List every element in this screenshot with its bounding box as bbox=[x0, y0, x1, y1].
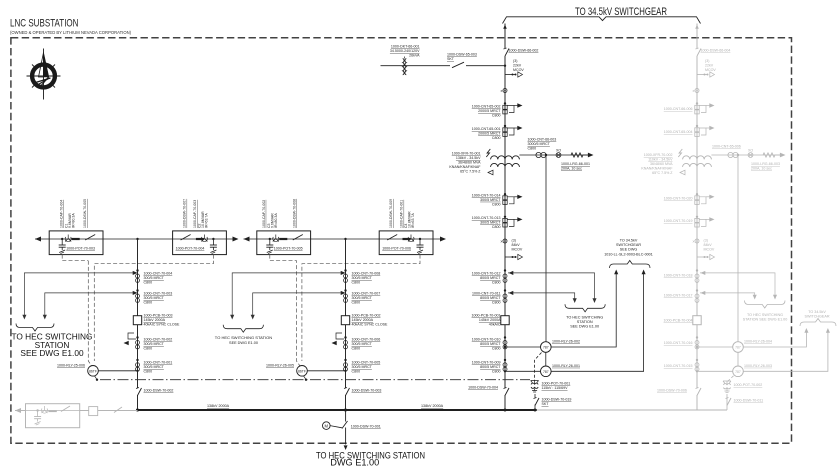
svg-text:x: x bbox=[693, 88, 695, 93]
svg-text:MCOV: MCOV bbox=[704, 248, 715, 252]
svg-text:115kV : 115/69V: 115kV : 115/69V bbox=[542, 386, 569, 390]
svg-text:1000-RLY-26-004: 1000-RLY-26-004 bbox=[744, 340, 772, 344]
capacitor bank 1000-POT-70-003 bbox=[49, 231, 103, 255]
svg-text:300/5 MRCT: 300/5 MRCT bbox=[480, 221, 501, 225]
svg-text:1000-CNT-70-011: 1000-CNT-70-011 bbox=[472, 292, 501, 296]
svg-text:300/5 MRCT: 300/5 MRCT bbox=[144, 342, 165, 346]
svg-text:1000-POT-70-006: 1000-POT-70-006 bbox=[382, 247, 411, 251]
svg-text:200A, 10 sec: 200A, 10 sec bbox=[561, 167, 582, 171]
svg-text:1000-PCB-70-001: 1000-PCB-70-001 bbox=[472, 314, 501, 318]
relay 1000-RLY-26-001 bbox=[505, 370, 541, 372]
svg-text:1000-LRG-66-001: 1000-LRG-66-001 bbox=[561, 162, 590, 166]
svg-text:1000-DSW-70-006: 1000-DSW-70-006 bbox=[657, 389, 687, 393]
svg-text:36/48/60 MVA: 36/48/60 MVA bbox=[650, 162, 673, 166]
svg-text:MCOV: MCOV bbox=[512, 248, 523, 252]
svg-text:200A, 10 sec: 200A, 10 sec bbox=[751, 167, 772, 171]
svg-text:C800: C800 bbox=[492, 281, 501, 285]
brace over relay wires bbox=[610, 261, 651, 269]
svg-text:1000-CNT-66-003: 1000-CNT-66-003 bbox=[528, 138, 557, 142]
svg-text:DWG E1.00: DWG E1.00 bbox=[330, 458, 379, 468]
svg-text:C800: C800 bbox=[492, 136, 501, 140]
svg-text:86TF: 86TF bbox=[89, 369, 97, 373]
svg-text:800/5 MRCT: 800/5 MRCT bbox=[480, 296, 501, 300]
svg-text:34.5000-240/120V: 34.5000-240/120V bbox=[390, 49, 420, 53]
svg-text:1000-PCB-70-003: 1000-PCB-70-003 bbox=[144, 314, 173, 318]
wire transformer neutral branch bbox=[519, 154, 590, 156]
PT 1000-POT-70-002 gray bbox=[727, 376, 734, 382]
svg-text:1000-DSW-70-002: 1000-DSW-70-002 bbox=[144, 389, 174, 393]
svg-text:1000-DSW-65-003: 1000-DSW-65-003 bbox=[447, 53, 477, 57]
brace TO HEC SWITCHING STATION bbox=[16, 324, 54, 332]
svg-text:1000-CNT-70-013: 1000-CNT-70-013 bbox=[472, 216, 501, 220]
svg-text:1000-CNT-70-016: 1000-CNT-70-016 bbox=[664, 341, 693, 345]
svg-text:40kAIC SYNC CLOSE: 40kAIC SYNC CLOSE bbox=[352, 323, 389, 327]
svg-text:IR=80.3A: IR=80.3A bbox=[274, 213, 278, 228]
svg-text:787: 787 bbox=[543, 346, 549, 350]
dashed cap control wiring bbox=[94, 255, 213, 361]
svg-text:1000-CNT-70-006: 1000-CNT-70-006 bbox=[352, 338, 381, 342]
svg-text:1000-CNT-70-001: 1000-CNT-70-001 bbox=[144, 361, 173, 365]
svg-text:300/5 MRCT: 300/5 MRCT bbox=[352, 365, 373, 369]
svg-text:1000-CNT-70-010: 1000-CNT-70-010 bbox=[472, 338, 501, 342]
dashed substation fence border bbox=[11, 38, 792, 443]
svg-text:787: 787 bbox=[735, 370, 741, 374]
svg-text:x: x bbox=[693, 239, 695, 244]
dashed cap control wiring bbox=[302, 255, 420, 361]
dashed cap control wiring bbox=[270, 255, 300, 366]
svg-text:1000-DSW-70-003: 1000-DSW-70-003 bbox=[352, 389, 382, 393]
svg-text:1000-CNT-65-001: 1000-CNT-65-001 bbox=[472, 127, 501, 131]
future 138kV feeder riser (gray) bbox=[696, 24, 698, 411]
svg-text:40kAIC: 40kAIC bbox=[489, 323, 501, 327]
brace TO HEC SWITCHING STATION (centre right) bbox=[565, 304, 605, 312]
relay 1000-RLY-26-003 gray bbox=[697, 370, 733, 372]
brace TO HEC SWITCHING STATION gray bbox=[745, 301, 786, 309]
svg-text:1000-CAP-70-002: 1000-CAP-70-002 bbox=[262, 200, 266, 228]
svg-text:787: 787 bbox=[543, 370, 549, 374]
svg-text:x: x bbox=[501, 239, 503, 244]
svg-text:KNAN/KNAF/KNAF: KNAN/KNAF/KNAF bbox=[641, 167, 673, 171]
svg-text:SWITCHGEAR: SWITCHGEAR bbox=[805, 315, 830, 319]
svg-text:SEE DWG E1.00: SEE DWG E1.00 bbox=[570, 325, 599, 329]
svg-text:1000-CAP-70-004: 1000-CAP-70-004 bbox=[59, 200, 63, 228]
svg-text:22kV: 22kV bbox=[705, 64, 714, 68]
svg-text:TO HEC SWITCHING: TO HEC SWITCHING bbox=[747, 313, 783, 317]
svg-text:2000/5 MRCT: 2000/5 MRCT bbox=[478, 132, 501, 136]
svg-text:C800: C800 bbox=[492, 202, 501, 206]
wire relays to 34.5kV switchgear brace bbox=[551, 273, 616, 348]
svg-text:1000-CNT-70-007: 1000-CNT-70-007 bbox=[352, 292, 381, 296]
svg-text:TO HEC SWITCHING: TO HEC SWITCHING bbox=[566, 315, 603, 319]
svg-text:1000-RLY-26-003: 1000-RLY-26-003 bbox=[744, 364, 772, 368]
svg-text:C800: C800 bbox=[352, 370, 361, 374]
svg-text:1000-CNT-70-008: 1000-CNT-70-008 bbox=[352, 272, 381, 276]
bus future section gray bbox=[537, 409, 727, 411]
svg-text:C800: C800 bbox=[352, 347, 361, 351]
relay 1000-RLY-26-002 bbox=[505, 346, 541, 348]
svg-text:300/5 MRCT: 300/5 MRCT bbox=[144, 296, 165, 300]
svg-text:1000-DKT-66-001: 1000-DKT-66-001 bbox=[391, 45, 420, 49]
svg-text:1000-DSW-70-001: 1000-DSW-70-001 bbox=[351, 424, 381, 428]
svg-text:SWITCHGEAR: SWITCHGEAR bbox=[616, 243, 641, 247]
svg-text:1000-CNT-70-019: 1000-CNT-70-019 bbox=[664, 219, 693, 223]
wire station service branch bbox=[381, 65, 451, 67]
wire gray CT secondaries to gray HEC brace bbox=[700, 273, 775, 296]
wire feeder drop at x=137.5 bbox=[137, 239, 139, 410]
svg-text:C800: C800 bbox=[492, 225, 501, 229]
svg-text:KNAN/KNAF/KNAF: KNAN/KNAF/KNAF bbox=[449, 165, 481, 169]
svg-text:LNC SUBSTATION: LNC SUBSTATION bbox=[10, 18, 79, 30]
svg-text:1000-CNT-70-015: 1000-CNT-70-015 bbox=[664, 364, 693, 368]
svg-text:C800: C800 bbox=[144, 370, 153, 374]
svg-text:STATION SEE DWG E1.00: STATION SEE DWG E1.00 bbox=[743, 318, 788, 322]
svg-text:TO HEC SWITCHING STATION: TO HEC SWITCHING STATION bbox=[215, 336, 273, 340]
svg-text:1000-CNT-70-018: 1000-CNT-70-018 bbox=[664, 274, 693, 278]
svg-text:40kAIC SYNC CLOSE: 40kAIC SYNC CLOSE bbox=[144, 323, 181, 327]
svg-text:2000/5 MRCT: 2000/5 MRCT bbox=[478, 109, 501, 113]
svg-text:300/5 MRCT: 300/5 MRCT bbox=[352, 296, 373, 300]
svg-text:1000-DSW-70-009: 1000-DSW-70-009 bbox=[389, 199, 393, 228]
capacitor bank 1000-POT-70-006 bbox=[379, 231, 433, 255]
PT 1000-POT-70-001 bbox=[535, 353, 542, 382]
svg-text:145kV 2000A: 145kV 2000A bbox=[479, 318, 501, 322]
svg-text:1000-CNT-70-003: 1000-CNT-70-003 bbox=[144, 292, 173, 296]
svg-text:86TF: 86TF bbox=[298, 369, 306, 373]
svg-text:MCOV: MCOV bbox=[705, 68, 716, 72]
svg-text:1000-RLY-26-001: 1000-RLY-26-001 bbox=[552, 364, 580, 368]
svg-text:1000-CNT-70-014: 1000-CNT-70-014 bbox=[472, 193, 501, 197]
svg-text:1000-RLY-26-002: 1000-RLY-26-002 bbox=[552, 340, 580, 344]
svg-text:(3): (3) bbox=[705, 59, 709, 63]
svg-text:800/5 MRCT: 800/5 MRCT bbox=[480, 276, 501, 280]
svg-text:3000/5 MRCT: 3000/5 MRCT bbox=[528, 142, 551, 146]
svg-text:800/5 MRCT: 800/5 MRCT bbox=[480, 342, 501, 346]
svg-text:84kV: 84kV bbox=[704, 243, 713, 247]
svg-text:1000-POT-70-001: 1000-POT-70-001 bbox=[542, 382, 571, 386]
svg-text:C800: C800 bbox=[352, 301, 361, 305]
svg-text:C800: C800 bbox=[492, 301, 501, 305]
svg-text:300/5 MRCT: 300/5 MRCT bbox=[144, 365, 165, 369]
svg-text:1000-DSW-66-004: 1000-DSW-66-004 bbox=[701, 49, 731, 53]
svg-text:1000-CNT-70-020: 1000-CNT-70-020 bbox=[664, 197, 693, 201]
svg-text:138kV - 34.5kV: 138kV - 34.5kV bbox=[456, 156, 481, 160]
wire gray relays to 34.5kV switchgear brace bbox=[743, 331, 806, 347]
svg-text:C800: C800 bbox=[352, 281, 361, 285]
dashed cap control wiring bbox=[62, 255, 88, 261]
wire 34.5kV capacitor bus bbox=[35, 238, 234, 240]
svg-text:1000-POT-70-003: 1000-POT-70-003 bbox=[66, 247, 95, 251]
svg-text:300/5 MRCT: 300/5 MRCT bbox=[144, 276, 165, 280]
wire neutral CT to gray relays bbox=[737, 155, 739, 342]
svg-text:XO: XO bbox=[556, 149, 561, 153]
svg-text:110kV - 34.5kV: 110kV - 34.5kV bbox=[648, 158, 673, 162]
svg-text:65°C 7.5% Z: 65°C 7.5% Z bbox=[652, 171, 673, 175]
svg-text:1000-RLY-25-006: 1000-RLY-25-006 bbox=[57, 364, 85, 368]
svg-text:800/5 MRCT: 800/5 MRCT bbox=[480, 365, 501, 369]
svg-text:1000-RLY-26-005: 1000-RLY-26-005 bbox=[266, 364, 294, 368]
svg-text:1000-CNT-65-004: 1000-CNT-65-004 bbox=[664, 130, 693, 134]
svg-text:1000-CNT-65-006: 1000-CNT-65-006 bbox=[712, 145, 741, 149]
svg-text:36/48/60 MVA: 36/48/60 MVA bbox=[458, 161, 481, 165]
svg-text:1010-LL-SL2-0003-BLC-0001: 1010-LL-SL2-0003-BLC-0001 bbox=[604, 252, 653, 256]
svg-text:1000-DSW-70-007: 1000-DSW-70-007 bbox=[183, 199, 187, 228]
svg-text:C800: C800 bbox=[528, 147, 537, 151]
svg-text:22kV: 22kV bbox=[513, 64, 522, 68]
svg-text:IR=63.7A: IR=63.7A bbox=[411, 213, 415, 228]
wire main 138kV feeder riser bbox=[504, 24, 506, 411]
svg-text:C800: C800 bbox=[492, 370, 501, 374]
wire CT secondaries to HEC brace (right of main feeder) bbox=[508, 273, 595, 300]
svg-text:787: 787 bbox=[735, 346, 741, 350]
svg-text:SKT: SKT bbox=[542, 402, 550, 406]
svg-text:1000-DSW-70-019: 1000-DSW-70-019 bbox=[542, 398, 572, 402]
svg-text:STATION: STATION bbox=[577, 320, 593, 324]
svg-text:65°C 7.5% Z: 65°C 7.5% Z bbox=[460, 170, 481, 174]
svg-text:(OWNED & OPERATED BY LITHIUM N: (OWNED & OPERATED BY LITHIUM NEVADA CORP… bbox=[10, 30, 132, 35]
svg-text:1000-XFR-70-001: 1000-XFR-70-001 bbox=[452, 152, 481, 156]
svg-text:IR=80.3A: IR=80.3A bbox=[72, 213, 76, 228]
svg-text:TO 34.5kV: TO 34.5kV bbox=[620, 239, 638, 243]
bus 138kV 2000A bbox=[138, 409, 537, 411]
compass north arrow bbox=[27, 49, 61, 100]
svg-text:1000-POT-70-004: 1000-POT-70-004 bbox=[176, 247, 205, 251]
svg-text:145kV 2000A: 145kV 2000A bbox=[144, 318, 166, 322]
wire neutral CT to lockout relays bbox=[545, 155, 547, 342]
svg-text:MCOV: MCOV bbox=[513, 68, 524, 72]
svg-text:(3): (3) bbox=[512, 239, 516, 243]
svg-text:SEE DWG E1.00: SEE DWG E1.00 bbox=[20, 348, 84, 358]
svg-text:XO: XO bbox=[748, 149, 753, 153]
svg-text:(3): (3) bbox=[513, 59, 517, 63]
svg-text:1000-PCB-70-002: 1000-PCB-70-002 bbox=[352, 314, 381, 318]
svg-text:TO 34.5kV: TO 34.5kV bbox=[808, 310, 826, 314]
svg-text:26kVA: 26kVA bbox=[409, 54, 420, 58]
svg-text:300/5 MRCT: 300/5 MRCT bbox=[352, 276, 373, 280]
svg-text:C800: C800 bbox=[492, 347, 501, 351]
svg-text:SKT: SKT bbox=[447, 57, 455, 61]
svg-text:1000-LRG-66-003: 1000-LRG-66-003 bbox=[751, 162, 780, 166]
svg-text:C800: C800 bbox=[144, 347, 153, 351]
svg-text:84kV: 84kV bbox=[512, 243, 521, 247]
svg-text:SEE DWG: SEE DWG bbox=[620, 248, 638, 252]
svg-text:1000-CNT-70-004: 1000-CNT-70-004 bbox=[144, 272, 173, 276]
wire CT secondaries to HEC brace bbox=[24, 273, 134, 316]
svg-text:1000-CNT-70-009: 1000-CNT-70-009 bbox=[472, 361, 501, 365]
svg-text:IR=63.7A: IR=63.7A bbox=[205, 213, 209, 228]
disconnect switch 1000-DSW-66-004 bbox=[696, 48, 698, 56]
svg-text:1000-CNT-66-006: 1000-CNT-66-006 bbox=[664, 107, 693, 111]
svg-text:1000-DSW-70-011: 1000-DSW-70-011 bbox=[734, 399, 764, 403]
svg-text:1000-DSW-66-002: 1000-DSW-66-002 bbox=[509, 49, 539, 53]
capacitor bank 1000-POT-70-005 bbox=[257, 231, 311, 255]
svg-text:145kV 2000A: 145kV 2000A bbox=[352, 318, 374, 322]
svg-text:x: x bbox=[501, 88, 503, 93]
svg-text:300/5 MRCT: 300/5 MRCT bbox=[480, 198, 501, 202]
svg-text:1000-DSW-70-005: 1000-DSW-70-005 bbox=[83, 199, 87, 228]
svg-text:1000-CNT-65-002: 1000-CNT-65-002 bbox=[472, 105, 501, 109]
wire CT secondaries to HEC brace bbox=[232, 273, 342, 316]
svg-text:1000-DSW-70-008: 1000-DSW-70-008 bbox=[292, 199, 296, 228]
svg-text:1000-POT-70-002: 1000-POT-70-002 bbox=[734, 383, 763, 387]
dash-dot property line bbox=[100, 379, 530, 381]
svg-text:300/5 MRCT: 300/5 MRCT bbox=[352, 342, 373, 346]
svg-text:SEE DWG E1.00: SEE DWG E1.00 bbox=[229, 341, 258, 345]
svg-text:C800: C800 bbox=[144, 301, 153, 305]
svg-text:1000-DSW-70-004: 1000-DSW-70-004 bbox=[468, 386, 498, 390]
disconnect switch 1000-DSW-66-002 bbox=[504, 48, 506, 56]
svg-text:1000-CNT-70-005: 1000-CNT-70-005 bbox=[352, 361, 381, 365]
capacitor bank 1000-POT-70-004 bbox=[173, 231, 227, 255]
svg-text:C800: C800 bbox=[144, 281, 153, 285]
svg-text:1000-PCB-70-004: 1000-PCB-70-004 bbox=[664, 319, 693, 323]
wire transformer neutral branch gray bbox=[711, 154, 782, 156]
svg-text:M: M bbox=[325, 423, 329, 428]
svg-text:138kV 2000A: 138kV 2000A bbox=[207, 404, 230, 408]
svg-text:TO 34.5kV SWITCHGEAR: TO 34.5kV SWITCHGEAR bbox=[575, 6, 667, 18]
bracket under top label bbox=[503, 17, 701, 24]
svg-text:1000-POT-70-005: 1000-POT-70-005 bbox=[274, 247, 303, 251]
brace TO HEC SWITCHING STATION bbox=[223, 325, 263, 333]
wire feeder drop at x=345.5 bbox=[345, 239, 347, 410]
svg-text:(3): (3) bbox=[704, 239, 708, 243]
svg-text:1000-CNT-70-017: 1000-CNT-70-017 bbox=[664, 294, 693, 298]
relay 1000-RLY-26-004 gray bbox=[697, 346, 733, 348]
svg-text:1000-XFR-70-002: 1000-XFR-70-002 bbox=[644, 153, 673, 157]
svg-text:1000-CNT-70-012: 1000-CNT-70-012 bbox=[472, 272, 501, 276]
future feeder (gray) bottom left bbox=[15, 410, 138, 412]
motor operated disconnect 1000-DSW-70-001 bbox=[345, 410, 347, 445]
svg-text:138kV 2000A: 138kV 2000A bbox=[421, 404, 444, 408]
svg-text:C800: C800 bbox=[492, 114, 501, 118]
svg-text:1000-CNT-70-002: 1000-CNT-70-002 bbox=[144, 338, 173, 342]
